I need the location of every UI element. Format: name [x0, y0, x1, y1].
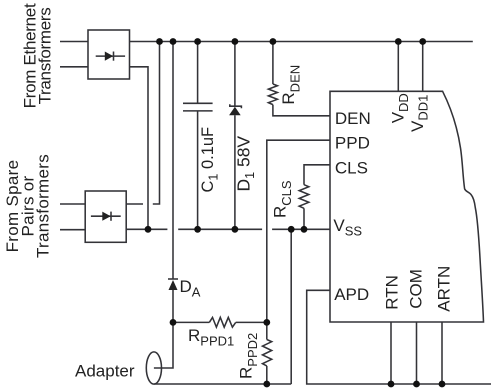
adapter plug connector	[146, 352, 161, 384]
junction node bottom rail / D1	[232, 226, 239, 233]
svg-text:D1 58V: D1 58V	[234, 136, 258, 192]
wire top input pair to bridge BR1	[60, 42, 88, 67]
junction node bottom rail / C1	[194, 226, 201, 233]
bridge rectifier BR2 (from spare pairs)	[85, 191, 126, 242]
junction node RTN / return rail	[388, 381, 395, 388]
wire BR1 negative output down	[130, 67, 149, 230]
IC outline U1	[330, 91, 484, 322]
wire COM pin	[416, 322, 418, 384]
junction node RPPD1 / RPPD2 / PPD	[263, 319, 270, 326]
wire BR2 positive output up to top rail (hops over vertical)	[126, 42, 159, 205]
wire CLS branch	[304, 165, 330, 185]
junction node top rail / VDD1	[419, 38, 426, 45]
junction node top rail / C1	[194, 38, 201, 45]
svg-text:CLS: CLS	[335, 159, 368, 178]
wire adapter diode branch from top rail	[172, 42, 174, 280]
wire RTN pin	[390, 322, 392, 384]
wire ARTN pin	[441, 322, 443, 384]
resistor RPPD1	[173, 317, 267, 327]
wire top rail	[130, 41, 473, 43]
junction node VSS drop	[288, 226, 295, 233]
junction node DA / RPPD1	[170, 319, 177, 326]
svg-text:DEN: DEN	[335, 109, 371, 128]
wire adapter return along bottom	[154, 383, 291, 385]
wire PPD branch	[267, 140, 330, 322]
label From Ethernet Transformers	[20, 3, 54, 108]
svg-text:ARTN: ARTN	[435, 266, 454, 312]
wire VDD pin	[397, 42, 399, 93]
bridge rectifier BR1 (from Ethernet transformers)	[88, 30, 130, 79]
wire bottom rail VSS	[126, 228, 330, 230]
junction node top rail / BR2 positive	[156, 38, 163, 45]
junction node ARTN / return rail	[439, 381, 446, 388]
resistor RPPD2	[263, 322, 272, 384]
junction node COM / return rail	[413, 381, 420, 388]
svg-text:Adapter: Adapter	[75, 362, 135, 381]
junction node bottom rail / BR1 negative	[145, 226, 152, 233]
diode DA	[168, 279, 178, 322]
junction node RPPD2 / adapter return	[263, 381, 270, 388]
wire VSS drop to adapter return	[290, 229, 292, 384]
svg-text:COM: COM	[407, 269, 426, 309]
capacitor C1	[183, 42, 213, 230]
label From Spare Pairs or Transformers	[3, 154, 52, 258]
wire VDD1 pin	[422, 42, 424, 93]
wire APD branch to bottom return rail	[307, 290, 491, 384]
svg-text:From EthernetTransformers: From EthernetTransformers	[20, 3, 54, 108]
zener diode D1	[229, 42, 241, 230]
junction node top rail / RDEN	[270, 38, 277, 45]
resistor RCLS	[299, 185, 309, 230]
wire bottom input pair to bridge BR2	[60, 204, 85, 230]
junction node RCLS / VSS	[301, 226, 308, 233]
junction node top rail / VDD	[395, 38, 402, 45]
wire adapter positive lead	[154, 322, 173, 368]
junction node top rail / DA branch	[170, 38, 177, 45]
junction node top rail / D1	[232, 38, 239, 45]
svg-text:RTN: RTN	[383, 275, 402, 310]
svg-text:PPD: PPD	[335, 134, 370, 153]
resistor RDEN	[268, 42, 330, 116]
svg-text:APD: APD	[334, 285, 369, 304]
